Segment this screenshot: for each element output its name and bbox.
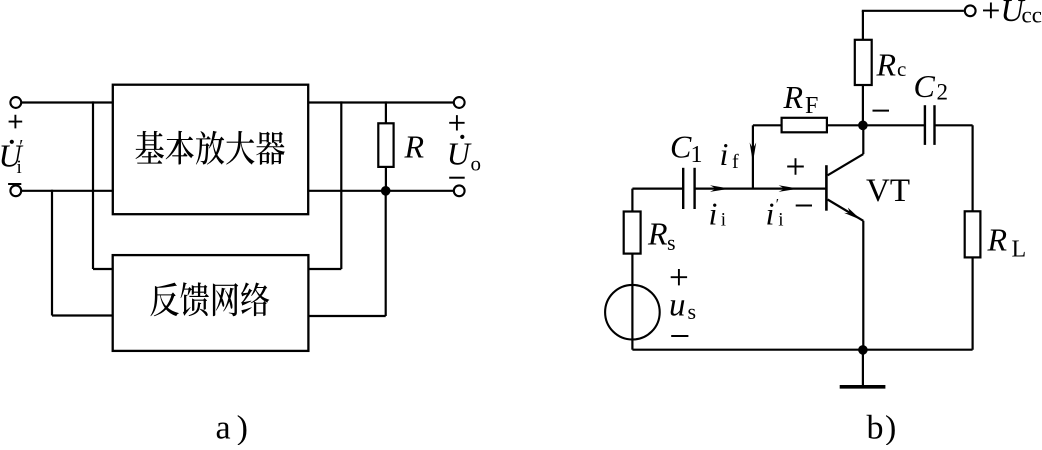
wire Vcc to Rc — [862, 11, 864, 40]
label +Ucc — [983, 0, 1042, 28]
svg-text:F: F — [805, 93, 818, 119]
svg-text:i: i — [721, 209, 726, 230]
label Ui' input voltage — [0, 137, 24, 178]
label ii — [709, 196, 727, 232]
wire Rc to collector node — [862, 85, 864, 125]
ground stub — [862, 350, 864, 386]
text 基本放大器 — [136, 131, 285, 165]
minus sign at us — [671, 335, 688, 337]
svg-text:C: C — [670, 129, 692, 165]
bottom rail wire — [632, 349, 972, 351]
minus sign at collector — [873, 110, 890, 112]
svg-text:R: R — [647, 216, 668, 252]
svg-text:i: i — [17, 157, 22, 178]
minus sign at base — [796, 205, 812, 207]
block feedback network box — [113, 255, 309, 351]
wire output bottom — [308, 190, 454, 192]
svg-text:1: 1 — [691, 142, 703, 168]
wire RL bottom to rail — [971, 257, 973, 349]
ground bar — [840, 385, 886, 389]
plus sign at Ui — [9, 115, 23, 129]
wire from output node down to feedback box right lower — [308, 191, 385, 316]
block basic amplifier box — [113, 85, 308, 215]
capacitor C1 plates — [683, 168, 694, 209]
svg-text:s: s — [667, 230, 676, 255]
svg-text:R: R — [783, 79, 804, 115]
label C2 — [914, 68, 949, 105]
resistor R body — [378, 123, 393, 167]
caption b) — [867, 410, 898, 447]
transistor emitter lead with arrow — [828, 200, 864, 350]
svg-text:R: R — [404, 129, 425, 165]
label Uo output voltage — [447, 135, 481, 176]
terminal output top-right — [454, 97, 465, 108]
terminal output bottom-right — [454, 185, 465, 196]
wire input bottom — [21, 190, 113, 192]
text 反馈网络 — [150, 282, 269, 316]
svg-text:a): a) — [216, 410, 254, 446]
label R — [404, 129, 425, 165]
transistor VT base bar — [825, 165, 828, 211]
transistor collector lead — [828, 125, 864, 175]
label us — [669, 287, 696, 324]
svg-text:i: i — [709, 196, 718, 232]
wire RF to feedback corner and down to base wire — [753, 125, 782, 188]
wire feedback tap from bottom input down to feedback box — [52, 190, 113, 316]
resistor RL body — [965, 211, 981, 257]
wire C1 to source — [632, 189, 683, 212]
svg-text:i: i — [720, 136, 729, 172]
svg-text:C: C — [914, 68, 936, 104]
wire Rs to source us — [631, 254, 633, 286]
minus sign at Uo — [449, 177, 465, 179]
label VT — [866, 173, 910, 209]
wire collector node to C2 — [863, 124, 925, 126]
svg-text:2: 2 — [937, 80, 949, 105]
label RL — [987, 221, 1027, 262]
arrow ii' current — [779, 185, 799, 192]
label Rc — [876, 47, 907, 83]
terminal Vcc — [965, 5, 976, 16]
wire from output top down to feedback box right — [308, 101, 341, 269]
wire C1 to base — [695, 188, 827, 190]
svg-text:s: s — [688, 299, 697, 324]
svg-text:VT: VT — [866, 173, 910, 209]
svg-text:R: R — [987, 221, 1008, 257]
arrow if feedback current — [750, 143, 757, 163]
label RF — [783, 79, 819, 119]
plus sign at Uo — [449, 115, 464, 130]
wire Vcc supply top — [862, 10, 964, 12]
svg-text:c: c — [897, 57, 906, 81]
terminal input bottom-left — [10, 185, 21, 196]
label if — [720, 136, 740, 173]
label C1 — [670, 129, 703, 168]
wire feedback tap from top input down to feedback box — [93, 101, 113, 269]
resistor R leads — [385, 101, 387, 191]
svg-text:′: ′ — [18, 137, 23, 158]
plus sign at base — [787, 158, 804, 175]
wire node to RF — [827, 124, 863, 126]
svg-text:i: i — [766, 196, 775, 232]
svg-text:b): b) — [867, 410, 898, 445]
resistor Rc body — [855, 40, 872, 85]
source us circle — [605, 285, 660, 340]
wire C2 to RL top — [935, 125, 973, 211]
caption a) — [216, 410, 254, 447]
wire output top — [308, 101, 454, 103]
svg-text:u: u — [669, 287, 686, 323]
arrow ii current — [710, 185, 730, 192]
svg-text:R: R — [876, 47, 897, 83]
plus sign at us — [671, 269, 687, 285]
resistor RF body — [782, 118, 827, 133]
minus sign at Ui — [8, 183, 21, 185]
emitter junction dot on rail — [858, 345, 868, 355]
junction node dot at R bottom — [381, 186, 391, 196]
wire input top — [21, 101, 113, 103]
collector node dot — [858, 121, 868, 131]
svg-text:U: U — [447, 135, 472, 171]
terminal input top-left — [10, 97, 21, 108]
svg-text:o: o — [471, 152, 482, 176]
label ii' — [766, 196, 784, 232]
resistor Rs body — [624, 212, 641, 254]
svg-text:i: i — [778, 209, 783, 230]
svg-text:L: L — [1012, 237, 1027, 263]
svg-text:f: f — [732, 151, 739, 173]
capacitor C2 plates — [925, 105, 935, 145]
svg-text:cc: cc — [1022, 3, 1042, 28]
label Rs — [647, 216, 676, 255]
wire us to bottom rail — [631, 340, 633, 350]
